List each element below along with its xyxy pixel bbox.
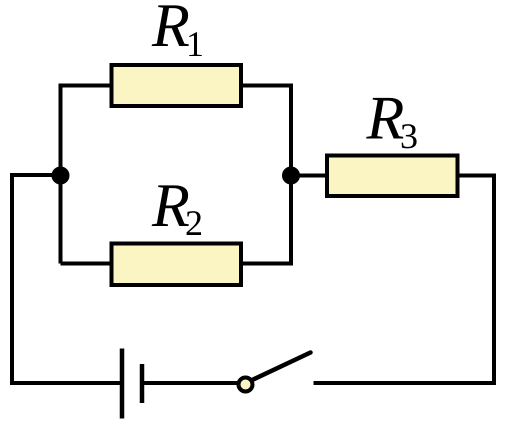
node A (junction dot left)	[52, 167, 70, 185]
resistor R1	[112, 65, 242, 106]
wire: battery to switch pivot	[142, 381, 238, 385]
resistor R2	[112, 244, 242, 286]
label R3	[366, 98, 403, 139]
label R2	[152, 185, 189, 226]
switch S1 pivot	[239, 378, 253, 392]
wire: R3 right lead to right outer loop down to switch contact	[314, 176, 495, 384]
label R1	[152, 5, 189, 46]
battery B1 short plate	[140, 364, 145, 403]
wire: R2 left lead	[61, 262, 112, 266]
wire: left branch from node A to outer loop	[12, 175, 120, 383]
battery B1 long plate	[120, 349, 125, 419]
resistor R3	[327, 156, 458, 197]
wire: right column (R1 right lead down to R2 right lead)	[240, 86, 291, 264]
switch S1 lever	[249, 353, 311, 382]
wire: left column top (node A to R1 left lead)	[61, 86, 110, 264]
node B (junction dot right)	[282, 167, 300, 185]
wire: node B to R3 left lead	[291, 174, 327, 178]
